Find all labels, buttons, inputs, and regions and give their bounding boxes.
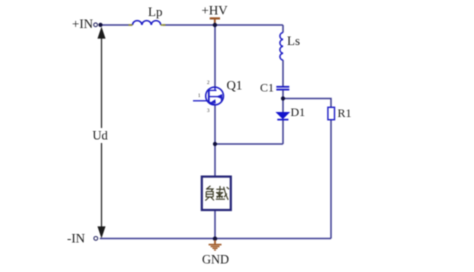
wire: top rail Lp right lead to Ls corner [163,24,283,26]
wire: Q1 drain lead from top rail [214,25,216,88]
svg-text:Lp: Lp [148,4,162,19]
wire: C1 bottom plate to node [282,90,284,98]
junction dot below C1 [281,96,285,100]
wire: mid node down to load box [214,144,216,177]
svg-text:+HV: +HV [202,3,229,18]
voltage arrow Ud (double headed) [98,29,104,237]
capacitor C1 [276,87,289,90]
Q1 pin numbers [198,81,210,114]
transistor Q1 [193,87,224,105]
ground symbol GND [209,240,222,250]
svg-text:R1: R1 [338,106,352,120]
wire: node to R1 corner [283,99,331,108]
svg-text:2: 2 [207,81,210,86]
label "fu zai" (load) drawn as strokes [205,186,229,201]
Q1 body arrow (left-pointing) [216,94,222,99]
wire: load box bottom to ground rail [214,210,216,239]
terminal +IN (open circle) [94,23,98,27]
svg-text:Ls: Ls [287,33,300,48]
svg-text:1: 1 [198,94,201,99]
char FU [206,186,210,190]
svg-text:+IN: +IN [72,16,94,31]
char ZAI [216,188,224,190]
wire: mid rail from Q1 node to D1 branch [215,143,283,145]
svg-text:GND: GND [202,253,229,267]
wire: D1 cathode down to mid rail [282,120,284,144]
svg-text:3: 3 [207,109,210,114]
svg-text:-IN: -IN [67,231,86,246]
resistor R1 [328,107,335,119]
wire: node down to D1 anode [282,99,284,113]
wire: R1 bottom down to ground rail [330,120,332,239]
junction dot at +HV node [213,23,217,27]
wire: bottom ground rail [100,238,331,240]
wire: Q1 source lead down to mid node [214,105,216,144]
wire: Ls corner down to coil top [282,25,284,33]
terminal -IN (open circle) [94,237,98,241]
wire: top rail from +IN node to Lp left lead [100,24,132,26]
inductor Ls [280,33,283,61]
inductor Lp [133,21,161,25]
junction dot at ground rail [213,237,217,241]
Q1 source arrow [211,99,216,103]
svg-text:Q1: Q1 [227,78,243,93]
diode D1 [276,112,289,119]
svg-text:D1: D1 [291,105,306,119]
load box (negative-load) [202,177,231,210]
junction dot at +IN node [98,23,102,27]
pin stubs Lp (olive) [129,24,166,26]
wire: Ls coil bottom to C1 top plate [282,60,284,86]
svg-text:C1: C1 [260,81,274,95]
junction dot at mid rail [213,142,217,146]
power bar +HV [210,18,220,25]
svg-text:Ud: Ud [93,129,109,143]
